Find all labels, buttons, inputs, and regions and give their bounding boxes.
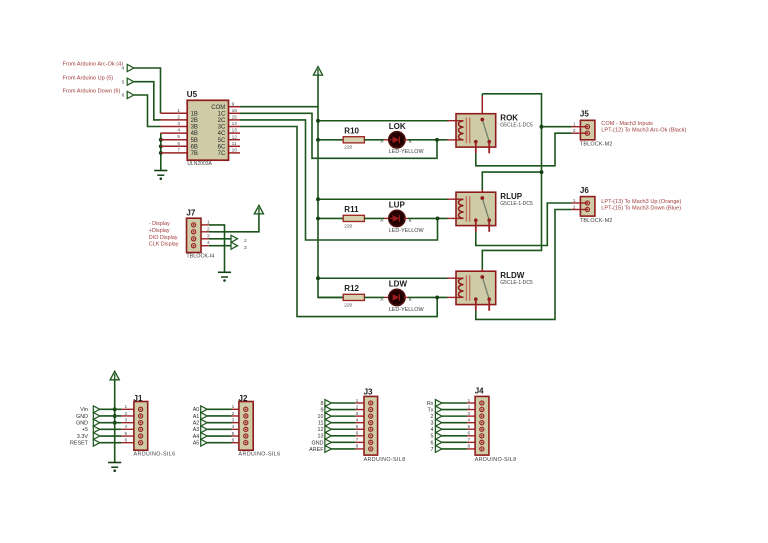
svg-text:From Arduino Arc-Ok (4): From Arduino Arc-Ok (4) [63,62,124,68]
svg-text:DIO Display: DIO Display [149,235,178,241]
svg-text:4: 4 [124,424,127,430]
svg-text:4B: 4B [191,131,198,137]
svg-text:1: 1 [232,404,235,410]
svg-text:Vin: Vin [80,407,88,413]
svg-text:3: 3 [124,417,127,423]
svg-text:16: 16 [232,108,238,114]
svg-text:5: 5 [467,424,470,430]
svg-text:COM: COM [211,105,225,111]
svg-text:2B: 2B [191,118,198,124]
svg-text:6: 6 [467,431,470,437]
svg-text:4: 4 [467,417,470,423]
svg-text:11: 11 [232,141,237,147]
svg-text:A1: A1 [193,414,200,420]
svg-text:GND: GND [76,414,88,420]
svg-text:ARDUINO-SIL6: ARDUINO-SIL6 [134,451,176,457]
svg-text:3: 3 [431,421,434,427]
svg-text:7B: 7B [191,151,198,157]
svg-text:2: 2 [573,128,576,134]
svg-text:G5CLE-1-DC5: G5CLE-1-DC5 [500,201,533,207]
svg-text:J3: J3 [364,387,373,396]
svg-text:6: 6 [122,93,125,99]
svg-text:GND: GND [76,421,88,427]
svg-text:5: 5 [124,431,127,437]
svg-text:+5: +5 [82,427,88,433]
svg-text:3: 3 [356,411,359,417]
svg-text:3.3V: 3.3V [77,434,88,440]
svg-text:6: 6 [431,440,434,446]
svg-text:7: 7 [356,437,359,443]
svg-text:6B: 6B [191,144,198,150]
svg-text:13: 13 [318,434,324,440]
svg-text:AREF: AREF [309,447,324,453]
svg-text:J6: J6 [580,186,589,195]
svg-text:2C: 2C [218,118,226,124]
svg-text:2: 2 [177,114,180,120]
svg-text:10: 10 [232,148,238,154]
svg-text:4: 4 [122,66,125,72]
svg-text:1: 1 [177,108,180,114]
svg-text:3: 3 [232,417,235,423]
svg-text:RESET: RESET [70,441,89,447]
svg-text:1: 1 [573,198,576,204]
svg-text:6: 6 [177,141,180,147]
svg-text:J7: J7 [186,209,195,218]
svg-text:LED-YELLOW: LED-YELLOW [389,307,425,313]
svg-text:+Display: +Display [149,228,170,234]
svg-text:LPT-(12) To Mach3 Arc-Ok (Blac: LPT-(12) To Mach3 Arc-Ok (Black) [601,128,686,134]
svg-text:A5: A5 [193,441,200,447]
svg-text:6: 6 [356,431,359,437]
svg-text:R11: R11 [344,205,359,214]
svg-text:8: 8 [321,401,324,407]
svg-text:G5CLE-1-DC5: G5CLE-1-DC5 [500,123,533,129]
svg-text:ARDUINO-SIL8: ARDUINO-SIL8 [475,457,517,463]
svg-text:5: 5 [232,431,235,437]
svg-text:CLK Display: CLK Display [149,242,179,248]
svg-text:220: 220 [344,223,352,229]
svg-text:4C: 4C [218,131,226,137]
svg-text:7: 7 [177,147,180,153]
svg-text:J4: J4 [475,387,484,396]
svg-text:12: 12 [232,134,238,140]
svg-text:2: 2 [244,238,247,244]
svg-text:9: 9 [321,407,324,413]
svg-text:8: 8 [356,444,359,450]
svg-text:G5CLE-1-DC5: G5CLE-1-DC5 [500,280,533,286]
svg-text:R10: R10 [344,127,359,136]
svg-text:9: 9 [232,101,235,107]
svg-text:2: 2 [232,411,235,417]
svg-text:10: 10 [318,414,324,420]
svg-text:2: 2 [573,205,576,211]
svg-text:6: 6 [124,438,127,444]
svg-text:3: 3 [244,245,247,251]
svg-text:Rx: Rx [427,401,434,407]
svg-text:5B: 5B [191,138,198,144]
svg-text:12: 12 [318,427,324,433]
svg-text:ARDUINO-SIL6: ARDUINO-SIL6 [239,451,281,457]
svg-text:4: 4 [207,240,210,246]
svg-text:5: 5 [431,434,434,440]
svg-text:From Arduino Up (5): From Arduino Up (5) [63,75,114,81]
svg-text:1: 1 [124,404,127,410]
svg-text:From Arduino Down (6): From Arduino Down (6) [63,89,121,95]
svg-text:6C: 6C [218,144,226,150]
svg-text:1: 1 [207,219,210,225]
svg-text:ULN2003A: ULN2003A [187,161,212,167]
svg-text:1: 1 [356,398,359,404]
svg-text:2: 2 [356,404,359,410]
svg-text:2: 2 [207,226,210,232]
svg-text:14: 14 [232,121,238,127]
svg-text:1B: 1B [191,111,198,117]
svg-text:1C: 1C [218,111,226,117]
svg-text:LED-YELLOW: LED-YELLOW [389,228,425,234]
svg-text:1: 1 [467,398,470,404]
svg-text:5: 5 [356,424,359,430]
svg-text:2: 2 [124,411,127,417]
svg-text:3C: 3C [218,125,226,131]
svg-text:4: 4 [431,427,434,433]
svg-text:J1: J1 [134,394,143,403]
svg-text:220: 220 [344,302,352,308]
svg-text:7: 7 [467,437,470,443]
svg-text:11: 11 [318,421,324,427]
svg-text:ROK: ROK [500,113,518,122]
svg-text:A4: A4 [193,434,200,440]
svg-text:4: 4 [232,424,235,430]
svg-text:5: 5 [177,134,180,140]
svg-text:GND: GND [312,440,324,446]
svg-text:ARDUINO-SIL8: ARDUINO-SIL8 [364,457,406,463]
svg-text:Tx: Tx [428,407,434,413]
svg-text:3: 3 [467,411,470,417]
svg-text:TBLOCK-M2: TBLOCK-M2 [580,142,613,148]
svg-text:3: 3 [207,233,210,239]
svg-text:2: 2 [431,414,434,420]
svg-text:TBLOCK-M2: TBLOCK-M2 [580,218,613,224]
svg-text:R12: R12 [344,284,359,293]
svg-text:TBLOCK-I4: TBLOCK-I4 [186,254,214,260]
svg-text:6: 6 [232,438,235,444]
svg-text:15: 15 [232,115,238,121]
svg-text:A0: A0 [193,407,200,413]
svg-text:7C: 7C [218,151,226,157]
svg-text:J2: J2 [239,394,248,403]
svg-text:LPT-(13) To Mach3 Up (Orange): LPT-(13) To Mach3 Up (Orange) [601,199,681,205]
svg-text:LOK: LOK [389,122,406,131]
svg-text:5: 5 [122,79,125,85]
svg-text:- Display: - Display [149,221,170,227]
svg-text:3: 3 [177,121,180,127]
svg-text:RLUP: RLUP [500,192,522,201]
svg-text:LED-YELLOW: LED-YELLOW [389,149,425,155]
svg-text:2: 2 [467,404,470,410]
svg-text:3B: 3B [191,125,198,131]
svg-text:4: 4 [356,417,359,423]
svg-text:13: 13 [232,128,238,134]
svg-text:5C: 5C [218,138,226,144]
svg-text:LDW: LDW [389,279,408,288]
svg-text:A2: A2 [193,421,200,427]
svg-text:1: 1 [573,122,576,128]
svg-text:LUP: LUP [389,200,406,209]
svg-text:A3: A3 [193,427,200,433]
svg-text:7: 7 [431,447,434,453]
svg-text:4: 4 [177,128,180,134]
svg-text:8: 8 [467,444,470,450]
svg-text:RLDW: RLDW [500,271,524,280]
svg-text:LPT-(15) To Mach3 Down (Blue): LPT-(15) To Mach3 Down (Blue) [601,205,681,211]
svg-text:U5: U5 [187,90,198,99]
svg-text:J5: J5 [580,110,589,119]
svg-text:COM - Mach3 Inputs: COM - Mach3 Inputs [601,121,653,127]
svg-text:220: 220 [344,145,352,151]
